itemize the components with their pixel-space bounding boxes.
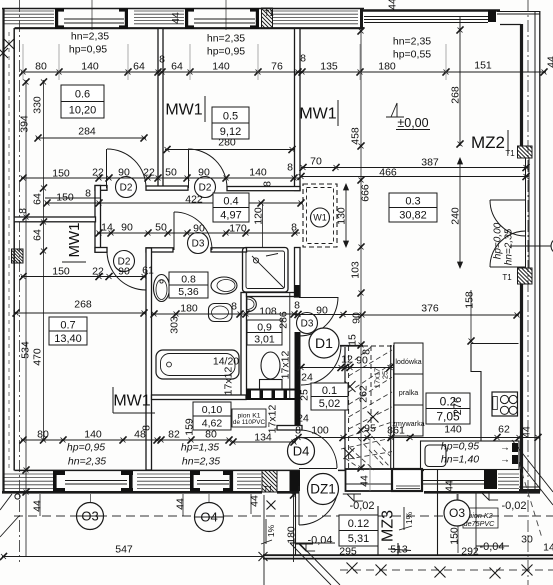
svg-text:15: 15 bbox=[347, 334, 359, 346]
room label 0.7 / 13,40 bbox=[49, 317, 87, 345]
svg-text:80: 80 bbox=[205, 429, 217, 441]
extension lines top dims bbox=[22, 44, 24, 80]
window bottom-second jamb brackets bbox=[190, 471, 194, 492]
door D1 circle label bbox=[309, 328, 339, 358]
svg-text:±0,00: ±0,00 bbox=[397, 116, 428, 130]
svg-text:140: 140 bbox=[212, 61, 230, 73]
door DZ1 circle label bbox=[308, 474, 339, 505]
svg-text:376: 376 bbox=[421, 303, 439, 315]
svg-text:90: 90 bbox=[356, 355, 368, 367]
wall corridor bottom right of door D3a bbox=[211, 248, 247, 252]
svg-text:17x12: 17x12 bbox=[267, 405, 279, 434]
svg-text:hp=0,95: hp=0,95 bbox=[69, 44, 107, 56]
diagonal line bottom-left corner bbox=[0, 516, 19, 537]
terrace dashed edge bottom bbox=[340, 569, 553, 571]
svg-text:0.4: 0.4 bbox=[223, 196, 238, 208]
corner circle bottom-left bbox=[15, 494, 20, 499]
svg-text:D2: D2 bbox=[199, 183, 212, 194]
window bottom-left jamb brackets bbox=[53, 471, 57, 492]
toilet WC bbox=[261, 352, 280, 379]
svg-text:292: 292 bbox=[461, 546, 479, 558]
axis bubble O3 right bbox=[444, 500, 470, 526]
svg-text:180: 180 bbox=[286, 526, 298, 544]
room label 0.10 / 4,62 bbox=[193, 402, 231, 430]
svg-text:5,36: 5,36 bbox=[178, 286, 199, 298]
svg-text:hp=1,35: hp=1,35 bbox=[181, 442, 219, 454]
svg-text:24: 24 bbox=[297, 413, 309, 425]
svg-text:140: 140 bbox=[84, 429, 102, 441]
wall kitchen / WC black solid segment bbox=[295, 332, 301, 430]
svg-text:61: 61 bbox=[393, 425, 405, 437]
svg-text:70: 70 bbox=[310, 156, 322, 168]
svg-text:330: 330 bbox=[32, 96, 44, 114]
svg-text:64: 64 bbox=[32, 193, 44, 205]
svg-text:25: 25 bbox=[299, 389, 311, 401]
svg-text:90: 90 bbox=[351, 312, 363, 324]
dimension row kitchen y176 bbox=[301, 176, 528, 178]
svg-text:62: 62 bbox=[498, 424, 510, 436]
svg-text:394: 394 bbox=[19, 115, 31, 133]
wall jog vertical at x361 bbox=[360, 8, 363, 29]
svg-text:hp=0,95: hp=0,95 bbox=[207, 46, 245, 58]
door D3b arc (WC) bbox=[299, 297, 338, 336]
stove 4 burners bbox=[492, 392, 518, 416]
svg-text:422: 422 bbox=[185, 194, 203, 206]
toilet bathroom bbox=[211, 277, 237, 294]
svg-text:-0,04: -0,04 bbox=[307, 534, 332, 546]
wall bathroom / room 0.7 vertical bbox=[146, 248, 152, 470]
svg-text:150: 150 bbox=[449, 527, 461, 545]
shaft W1 dashed bbox=[303, 184, 337, 247]
svg-text:8: 8 bbox=[85, 188, 91, 200]
jamb post left of door DZ1 bbox=[290, 471, 301, 491]
svg-text:90: 90 bbox=[316, 305, 328, 317]
wall left hatch square bbox=[12, 249, 24, 263]
svg-text:MW1: MW1 bbox=[165, 102, 202, 119]
dimension row top y72 bbox=[21, 71, 546, 73]
svg-text:90: 90 bbox=[118, 266, 130, 278]
svg-text:90: 90 bbox=[198, 167, 210, 179]
axis line right vertical dash-dot bbox=[527, 0, 529, 585]
window MW1 top-left jamb brackets bbox=[55, 8, 58, 29]
shaft W1 circle label bbox=[311, 208, 330, 227]
svg-text:140: 140 bbox=[249, 167, 267, 179]
svg-text:8: 8 bbox=[300, 53, 306, 65]
svg-text:547: 547 bbox=[115, 544, 133, 556]
svg-text:150: 150 bbox=[52, 168, 70, 180]
annex bottom terrace bold lines bbox=[263, 554, 553, 556]
axis stub window O4 top bbox=[225, 0, 227, 30]
washbasin bathroom bbox=[154, 275, 170, 302]
svg-text:5,02: 5,02 bbox=[319, 398, 340, 410]
wall top-right exterior bold outer face bbox=[361, 9, 500, 12]
stairs winder treads dashed bbox=[349, 346, 373, 365]
stairs lower flight dashed bbox=[366, 430, 390, 456]
svg-text:158: 158 bbox=[464, 291, 476, 309]
door D2a circle label bbox=[116, 177, 137, 198]
outdoor steps diagonals bottom-right bbox=[512, 440, 553, 492]
wall right outer thin faces bbox=[534, 11, 536, 491]
svg-text:268: 268 bbox=[450, 86, 462, 104]
door DZ1 arc (entrance) bbox=[299, 486, 338, 525]
svg-text:458: 458 bbox=[350, 127, 362, 145]
svg-text:90: 90 bbox=[118, 167, 130, 179]
door MZ2 french leaf upper bbox=[490, 199, 525, 201]
svg-text:22: 22 bbox=[143, 167, 155, 179]
svg-text:25: 25 bbox=[381, 371, 390, 379]
wall stub left of door D2a bbox=[95, 186, 107, 191]
level mark -0,04 annex bbox=[299, 544, 306, 551]
svg-text:T1: T1 bbox=[264, 9, 274, 18]
svg-text:44: 44 bbox=[521, 426, 533, 438]
dimension annex x458 bbox=[457, 494, 459, 553]
svg-text:hn=2,35: hn=2,35 bbox=[182, 456, 220, 468]
dimension line y198 short bbox=[45, 197, 100, 199]
wall top hatch piers bbox=[4, 10, 54, 12]
dimension row kitchen y315 376 bbox=[360, 314, 519, 316]
svg-text:1%: 1% bbox=[404, 511, 414, 524]
svg-text:76: 76 bbox=[271, 61, 283, 73]
svg-text:8: 8 bbox=[287, 162, 293, 174]
svg-text:44: 44 bbox=[175, 498, 187, 510]
wall left inner face bbox=[13, 28, 15, 471]
svg-text:hp=0,95: hp=0,95 bbox=[441, 441, 479, 453]
room label 0.2 / 7,05 bbox=[426, 393, 470, 424]
svg-text:50: 50 bbox=[165, 167, 177, 179]
svg-text:44: 44 bbox=[546, 56, 553, 68]
svg-text:pralka: pralka bbox=[399, 388, 419, 397]
axis line left vertical dash-dot bbox=[19, 0, 21, 562]
svg-text:64: 64 bbox=[133, 61, 145, 73]
svg-text:lodówka: lodówka bbox=[395, 357, 421, 366]
dimension row kitchen bottom y437.5 bbox=[296, 437, 540, 439]
wall top exterior outer face bbox=[2, 8, 364, 10]
room label 0.8 / 5,36 bbox=[169, 272, 208, 298]
svg-text:103: 103 bbox=[350, 261, 362, 279]
svg-text:44: 44 bbox=[249, 495, 261, 507]
window MW1 top-left glazing bbox=[64, 18, 124, 20]
svg-text:180: 180 bbox=[378, 61, 396, 73]
dimension row stairs y367 bbox=[299, 367, 393, 369]
svg-text:8: 8 bbox=[262, 181, 274, 187]
dimension vertical x361 kitchen bbox=[360, 29, 362, 470]
svg-text:8: 8 bbox=[17, 208, 29, 214]
svg-text:-0,02: -0,02 bbox=[349, 500, 374, 512]
room label 0.3 / 30,82 bbox=[389, 193, 437, 222]
door D4 arc (hall) bbox=[299, 430, 337, 468]
svg-text:→: → bbox=[500, 443, 510, 454]
dimension row kitchen top y167 bbox=[301, 167, 528, 169]
wall bottom exterior bold outer face bbox=[2, 491, 262, 494]
svg-text:hp=0,55: hp=0,55 bbox=[393, 49, 431, 61]
extension line x370 bbox=[369, 438, 371, 492]
svg-text:3,01: 3,01 bbox=[254, 333, 275, 345]
svg-text:D4: D4 bbox=[293, 444, 310, 459]
svg-text:30,82: 30,82 bbox=[399, 210, 427, 222]
wall bottom-right corner bbox=[519, 489, 540, 492]
svg-text:MZ2: MZ2 bbox=[471, 133, 505, 152]
svg-text:12: 12 bbox=[341, 354, 353, 366]
wall vertical pilaster MW1 area bbox=[95, 186, 101, 253]
dimension row corridor y276 bbox=[21, 276, 146, 278]
room label 0.4 / 4,97 bbox=[213, 193, 249, 222]
svg-text:22: 22 bbox=[92, 167, 104, 179]
svg-text:14: 14 bbox=[101, 222, 113, 234]
svg-text:14/20: 14/20 bbox=[213, 356, 239, 368]
wall below shower horizontal bbox=[247, 293, 296, 297]
svg-text:8: 8 bbox=[141, 425, 153, 431]
svg-text:10,20: 10,20 bbox=[69, 105, 97, 117]
window MW1 top-second jamb brackets bbox=[185, 8, 188, 29]
svg-text:90: 90 bbox=[193, 223, 205, 235]
axis line bottom horizontal dashed bbox=[14, 515, 553, 517]
axis stub O3 bottom bbox=[90, 494, 92, 530]
svg-text:387: 387 bbox=[421, 157, 439, 169]
strikethrough on 513 bbox=[388, 549, 411, 551]
pier T1 bottom hatched bbox=[262, 471, 277, 493]
svg-text:170: 170 bbox=[229, 223, 247, 235]
dimension verticals small bottom bbox=[39, 494, 41, 516]
level mark -0,02 annex bbox=[347, 494, 354, 501]
window bottom-second glazing bbox=[197, 480, 229, 482]
dimension vertical x460 right bbox=[459, 16, 461, 146]
svg-text:262: 262 bbox=[358, 385, 370, 403]
svg-text:8: 8 bbox=[159, 54, 165, 66]
kitchen counter bottom bbox=[421, 441, 520, 470]
dimension chain left x43.5 bbox=[43, 80, 45, 440]
dishwasher zmywarka box bbox=[394, 405, 423, 436]
bathtub bbox=[156, 350, 239, 379]
wall left finish dashed line bbox=[8, 32, 10, 468]
threshold landing entry bold rect B bbox=[392, 469, 422, 491]
wall top exterior inner face bbox=[15, 27, 365, 29]
svg-text:50: 50 bbox=[155, 222, 167, 234]
dimension row corridor y203 bbox=[45, 202, 303, 204]
svg-text:64: 64 bbox=[171, 61, 183, 73]
svg-text:64: 64 bbox=[32, 229, 44, 241]
stairs dashed verticals bbox=[348, 346, 350, 470]
svg-text:108: 108 bbox=[259, 306, 277, 318]
svg-text:→: → bbox=[500, 455, 510, 466]
svg-text:hn=2,35: hn=2,35 bbox=[71, 31, 109, 43]
wall top of corridor 0.4 (x227-300) bbox=[227, 187, 300, 191]
door MZ3 jambs in annex bbox=[377, 506, 379, 556]
axis bubble O4 bbox=[195, 503, 224, 532]
svg-text:100: 100 bbox=[311, 425, 329, 437]
door D3a arc (bathroom) bbox=[174, 212, 212, 250]
svg-text:151: 151 bbox=[474, 60, 492, 72]
svg-text:130: 130 bbox=[336, 207, 348, 225]
svg-text:D3: D3 bbox=[301, 319, 314, 330]
level mark -0,02 right bbox=[482, 493, 489, 500]
dimension row bottom left y440 bbox=[21, 439, 231, 441]
fridge lodowka box bbox=[394, 343, 423, 374]
axis stub O4 bottom bbox=[208, 494, 210, 532]
window bottom kitchen glazing bbox=[421, 480, 484, 482]
svg-text:466: 466 bbox=[379, 167, 397, 179]
wall bathroom / WC vertical bbox=[241, 293, 247, 400]
window top-right band glazing bbox=[364, 16, 488, 18]
svg-text:13,40: 13,40 bbox=[54, 333, 82, 345]
wall MW1 horizontal from left wall bbox=[14, 217, 95, 222]
svg-text:150: 150 bbox=[52, 266, 70, 278]
svg-text:470: 470 bbox=[32, 348, 44, 366]
door D3b circle label bbox=[297, 313, 318, 334]
svg-text:14: 14 bbox=[543, 542, 553, 554]
svg-text:80: 80 bbox=[35, 61, 47, 73]
wall bottom inner face bbox=[15, 469, 301, 471]
washbasin WC d-shape bbox=[247, 297, 257, 312]
svg-text:159: 159 bbox=[184, 418, 196, 436]
svg-text:MZ3: MZ3 bbox=[380, 510, 397, 542]
dimension row corridor y178 bbox=[21, 177, 300, 179]
annex room 0.12 outline bbox=[295, 491, 297, 556]
dimension 280 room 0.5 bbox=[165, 149, 294, 151]
svg-text:hn=2,35: hn=2,35 bbox=[207, 33, 245, 45]
door D2c circle label bbox=[114, 251, 135, 272]
svg-text:0,9: 0,9 bbox=[257, 321, 272, 333]
dimension vertical 120 corridor bbox=[262, 204, 264, 248]
dimension 284 room 0.6 bbox=[36, 137, 146, 139]
svg-text:O3: O3 bbox=[449, 506, 465, 520]
door D3a circle label bbox=[188, 233, 209, 254]
axis stub O3b bottom right bbox=[456, 494, 458, 526]
room label 0.5 / 9,12 bbox=[212, 107, 249, 139]
svg-text:8: 8 bbox=[361, 349, 373, 355]
door D3b top post black bbox=[295, 285, 300, 297]
svg-text:666: 666 bbox=[360, 184, 372, 202]
svg-text:303: 303 bbox=[169, 316, 181, 334]
dimension row y314 bathroom bbox=[152, 313, 300, 315]
svg-text:D1: D1 bbox=[315, 335, 333, 351]
svg-text:0.12: 0.12 bbox=[348, 518, 369, 530]
window-door MZ2 glazing bbox=[525, 158, 527, 268]
svg-text:22: 22 bbox=[92, 266, 104, 278]
wall with transom squares WC / 0.10 bbox=[246, 389, 300, 401]
svg-text:9,12: 9,12 bbox=[220, 126, 241, 138]
room label 0.12 / 5,31 bbox=[339, 515, 378, 546]
door D2b arc (room 0.5) bbox=[188, 149, 227, 188]
slope 1 percent left bbox=[265, 519, 267, 544]
wall kitchen / shower vertical upper bbox=[295, 248, 301, 298]
room label 0.9 / 3,01 bbox=[247, 320, 282, 345]
dimension row 0.10 y442 bbox=[231, 441, 296, 443]
svg-text:8: 8 bbox=[294, 300, 300, 312]
axis bubble fragment right edge bbox=[551, 238, 553, 254]
wall divider room 0.5 / 0.3 bbox=[295, 29, 301, 191]
door D2a arc (room 0.6) bbox=[107, 149, 146, 188]
shower tray bbox=[243, 248, 289, 293]
svg-text:-0,02: -0,02 bbox=[501, 500, 526, 512]
svg-text:hn=2,35: hn=2,35 bbox=[393, 36, 431, 48]
svg-text:D2: D2 bbox=[120, 183, 133, 194]
svg-text:4,97: 4,97 bbox=[220, 210, 241, 222]
door D1 arc (living room) bbox=[301, 345, 341, 385]
svg-text:44: 44 bbox=[170, 12, 182, 24]
svg-text:61: 61 bbox=[142, 265, 154, 277]
svg-text:T1: T1 bbox=[505, 149, 515, 158]
kitchen counter right bbox=[471, 344, 519, 441]
dimension vertical x346 W1 bbox=[345, 184, 347, 247]
wall stub above door D2c bbox=[95, 248, 107, 253]
door MZ2 french leaf lower bbox=[490, 266, 525, 268]
window MW1 top-second glazing bbox=[194, 18, 255, 20]
svg-text:90: 90 bbox=[121, 222, 133, 234]
svg-text:1%: 1% bbox=[266, 524, 276, 537]
wall bottom of bathroom / top of 0.10 bbox=[152, 395, 247, 400]
svg-text:hp=0,95: hp=0,95 bbox=[67, 442, 105, 454]
svg-text:140: 140 bbox=[444, 424, 462, 436]
svg-text:24: 24 bbox=[301, 372, 313, 384]
svg-text:30: 30 bbox=[521, 534, 533, 546]
pier T1 top hatched bbox=[262, 8, 273, 29]
window bottom kitchen jamb brackets bbox=[413, 471, 421, 489]
dimension row corridor y233 bbox=[97, 232, 300, 234]
svg-text:286: 286 bbox=[278, 311, 290, 329]
svg-text:hp=0,00: hp=0,00 bbox=[493, 222, 504, 259]
window top-right jamb bracket bbox=[488, 10, 496, 22]
svg-text:134: 134 bbox=[254, 432, 272, 444]
dimension row y314 hall bbox=[295, 314, 360, 316]
svg-text:44: 44 bbox=[32, 500, 44, 512]
svg-text:hn=2,35: hn=2,35 bbox=[504, 228, 515, 265]
svg-text:140: 140 bbox=[81, 61, 99, 73]
svg-text:8: 8 bbox=[231, 301, 237, 313]
dimension bottom 547 bbox=[2, 556, 263, 558]
door D4 circle label bbox=[288, 438, 315, 465]
svg-text:8: 8 bbox=[295, 425, 301, 437]
door D1 opening edge bbox=[340, 345, 363, 347]
door D2b circle label bbox=[195, 177, 216, 198]
dimension vertical x471 158 bbox=[470, 290, 472, 343]
stairs boundary bbox=[344, 347, 346, 470]
svg-text:DZ1: DZ1 bbox=[310, 482, 336, 497]
svg-text:120: 120 bbox=[253, 207, 265, 225]
svg-text:44: 44 bbox=[444, 480, 456, 492]
bidet bathroom bbox=[209, 304, 233, 322]
wall right inner bold upper segment bbox=[520, 24, 523, 146]
svg-text:MW1: MW1 bbox=[113, 393, 150, 410]
svg-text:5,31: 5,31 bbox=[348, 533, 369, 545]
svg-text:135: 135 bbox=[320, 61, 338, 73]
pion K2 box bbox=[463, 508, 498, 528]
terrace left edge line bbox=[263, 495, 265, 585]
svg-text:8: 8 bbox=[387, 425, 393, 437]
wall divider room 0.6 / 0.5 bbox=[158, 29, 163, 189]
wall face line WC inner bbox=[289, 293, 291, 399]
wall bottom hatch piers bbox=[4, 473, 53, 475]
room label 0.6 / 10,20 bbox=[61, 85, 104, 118]
wall hall / 0.10 horizontal bbox=[277, 426, 302, 431]
door D2c arc (room 0.7) bbox=[107, 251, 146, 290]
pier T1 right upper hatched bbox=[518, 146, 533, 158]
svg-text:82: 82 bbox=[168, 429, 180, 441]
svg-text:150: 150 bbox=[56, 192, 74, 204]
pion K1 box bbox=[232, 409, 266, 427]
dimension row y313 left bbox=[14, 312, 146, 314]
svg-text:de 110PVC: de 110PVC bbox=[233, 419, 266, 426]
kitchen sink bbox=[425, 445, 446, 467]
axis bubble O3 bbox=[77, 503, 104, 530]
svg-text:180: 180 bbox=[180, 303, 198, 315]
svg-text:0.5: 0.5 bbox=[223, 110, 238, 122]
svg-text:W1: W1 bbox=[313, 213, 327, 223]
svg-text:44: 44 bbox=[359, 475, 371, 487]
wall right inner bold lower segment bbox=[520, 284, 523, 490]
svg-text:hn=1,40: hn=1,40 bbox=[441, 454, 479, 466]
svg-text:534: 534 bbox=[20, 341, 32, 359]
wall corridor bottom left of door D3a bbox=[146, 248, 173, 252]
